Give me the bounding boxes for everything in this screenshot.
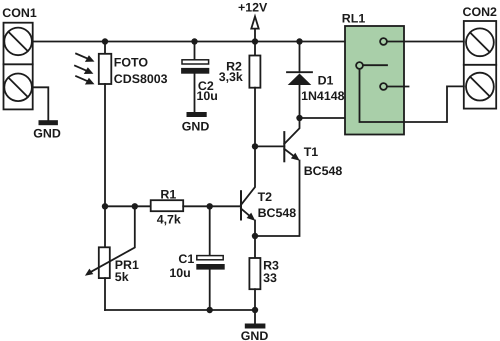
label R1 4,7k (157, 188, 181, 227)
svg-text:3,3k: 3,3k (219, 70, 243, 84)
svg-text:T1: T1 (304, 145, 319, 159)
svg-text:33: 33 (263, 271, 277, 285)
wire common pole to CON2 bottom (360, 69, 464, 122)
node junction dot PR1 wiper (132, 203, 138, 209)
svg-text:RL1: RL1 (342, 12, 366, 26)
potentiometer PR1 (85, 206, 135, 310)
wire bottom rail (105, 309, 255, 311)
node junction dot D1 anode (296, 115, 302, 121)
svg-text:CON2: CON2 (463, 5, 498, 19)
relay contact NC middle (380, 83, 408, 90)
wire CON1 pin2 to ground (33, 87, 49, 120)
node junction dot at R2 top (252, 38, 258, 44)
light arrow 2 (75, 66, 93, 74)
ground main (241, 324, 269, 341)
svg-text:R1: R1 (160, 188, 176, 202)
node junction dot FOTO/R1/PR1 (102, 203, 108, 209)
svg-text:FOTO: FOTO (114, 55, 149, 69)
svg-text:D1: D1 (318, 73, 334, 87)
wire relay coil feed (300, 117, 346, 119)
wire FOTO down to R1 node (104, 84, 106, 206)
light arrow 1 (76, 54, 94, 62)
label RL1 (342, 12, 366, 26)
svg-text:GND: GND (182, 119, 210, 133)
wire T1 base to node (255, 145, 284, 147)
diode D1 (287, 42, 312, 119)
svg-text:1N4148: 1N4148 (301, 89, 345, 103)
svg-text:C1: C1 (178, 252, 194, 266)
wire T1 emitter down (255, 161, 300, 237)
light arrow 3 (76, 76, 94, 84)
node junction dot at FOTO top (102, 38, 108, 44)
label PR1 5k (115, 258, 139, 284)
ground under CON1 (33, 120, 61, 140)
node junction dot R1/C1/T2 base (207, 203, 213, 209)
connector CON2 (464, 21, 496, 109)
resistor R1 (105, 200, 241, 211)
label C2 10u (197, 79, 218, 103)
wire rail to C2 (194, 42, 196, 60)
label T1 BC548 (304, 145, 343, 178)
resistor R2 (249, 42, 260, 147)
svg-text:BC548: BC548 (304, 164, 343, 178)
label +12V (238, 0, 268, 14)
connector CON1 (4, 23, 33, 110)
label T2 BC548 (258, 190, 297, 220)
label D1 1N4148 (301, 73, 345, 103)
node junction dot R2 bottom / T1 base (252, 143, 258, 149)
node junction dot emitters/R3 top (252, 233, 258, 239)
svg-text:4,7k: 4,7k (157, 213, 181, 227)
svg-text:T2: T2 (258, 190, 273, 204)
wire NO contact to CON2 top (387, 41, 464, 43)
relay contact NO top (380, 38, 387, 45)
svg-text:10u: 10u (197, 89, 218, 103)
svg-text:GND: GND (241, 329, 269, 341)
resistor R3 (249, 236, 260, 310)
svg-text:CDS8003: CDS8003 (114, 72, 168, 86)
relay contact common pole (356, 62, 387, 69)
svg-text:BC548: BC548 (258, 206, 297, 220)
label FOTO CDS8003 (114, 55, 168, 86)
wire top rail +12V (33, 41, 345, 43)
svg-text:GND: GND (33, 127, 61, 141)
node junction dot R3 bottom (252, 307, 258, 313)
transistor T1 (284, 118, 300, 161)
svg-text:10u: 10u (169, 266, 190, 280)
node junction dot at C2 top (191, 38, 197, 44)
label R3 33 (263, 259, 279, 285)
wire C2 to ground (194, 74, 196, 112)
svg-text:CON1: CON1 (2, 6, 37, 20)
label R2 3,3k (219, 60, 243, 85)
capacitor C1 (196, 206, 224, 310)
photoresistor FOTO CDS8003 (99, 54, 112, 84)
supply +12V arrow (251, 17, 258, 42)
relay RL1 box (345, 26, 404, 135)
ground under C2 (182, 112, 210, 133)
svg-text:5k: 5k (115, 270, 129, 284)
capacitor C2 (181, 60, 209, 74)
svg-text:+12V: +12V (238, 0, 268, 14)
label C1 10u (169, 252, 194, 280)
transistor T2 (241, 146, 255, 236)
label CON1 (2, 6, 37, 20)
label CON2 (463, 5, 498, 19)
wire R3 to ground (254, 310, 256, 323)
node junction dot C1 bottom (207, 307, 213, 313)
node junction dot at D1 top (296, 38, 302, 44)
wire rail to FOTO (104, 42, 106, 54)
